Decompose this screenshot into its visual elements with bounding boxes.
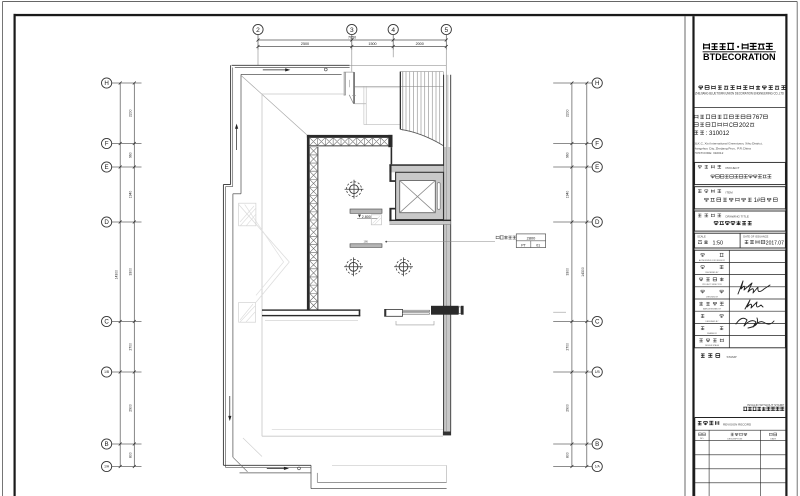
svg-text:: 310012: : 310012 <box>706 130 730 137</box>
company name CJK <box>699 85 786 89</box>
room hatched left wall <box>307 135 310 310</box>
stair treads <box>405 72 407 131</box>
sheet outer border <box>3 1 798 3</box>
svg-text:C: C <box>729 122 733 129</box>
svg-text:1/B: 1/B <box>104 370 110 374</box>
project box <box>695 162 786 184</box>
left wall hatch X cells <box>310 147 318 310</box>
svg-text:202: 202 <box>739 122 750 129</box>
bottom wall dark pier <box>431 306 459 315</box>
finish leader and tag <box>385 241 387 243</box>
svg-text:1/A: 1/A <box>104 465 110 469</box>
svg-text:REVISION RECORD: REVISION RECORD <box>723 422 752 426</box>
ceiling faint lines <box>261 94 263 436</box>
svg-text:2700: 2700 <box>129 343 133 351</box>
svg-text:2000: 2000 <box>416 42 424 46</box>
bottom wall left segment <box>262 309 360 310</box>
svg-text:2700: 2700 <box>565 343 569 351</box>
svg-text:960: 960 <box>565 152 569 158</box>
svg-text:REVIEWED BY: REVIEWED BY <box>705 272 719 274</box>
svg-text:800: 800 <box>565 452 569 458</box>
svg-text:14300: 14300 <box>114 270 118 280</box>
svg-text:2200: 2200 <box>565 109 569 117</box>
svg-text:SCALE: SCALE <box>697 234 706 238</box>
svg-text:1:50: 1:50 <box>713 241 724 247</box>
elevator bottom wall <box>389 220 450 222</box>
svg-text:2200: 2200 <box>129 109 133 117</box>
elevator lobby walls <box>391 147 393 164</box>
beam bar with elevation <box>350 209 382 213</box>
svg-text:F: F <box>105 141 109 148</box>
svg-text:DATE: DATE <box>770 437 776 440</box>
scale/date box <box>695 233 786 248</box>
ceiling light 2 <box>344 266 363 268</box>
roof vent rect 1 <box>239 203 256 226</box>
svg-text:B: B <box>595 441 599 448</box>
roof eave outline: left upper <box>230 65 232 184</box>
svg-text:3300: 3300 <box>565 268 569 276</box>
signature 3 <box>736 318 774 328</box>
svg-text:1#: 1# <box>754 198 761 204</box>
roof vent rect 2 <box>239 303 256 323</box>
svg-text:DRAWN BY: DRAWN BY <box>707 332 718 335</box>
svg-text:2900: 2900 <box>129 404 133 412</box>
svg-text:4: 4 <box>391 27 395 34</box>
svg-text:186: 186 <box>364 240 369 244</box>
svg-text:CHECKED BY: CHECKED BY <box>706 296 719 298</box>
top grid bubbles 2 3 4 5 <box>253 24 263 34</box>
svg-text:NO.: NO. <box>700 438 704 440</box>
stair walk curve <box>400 129 443 145</box>
ceiling light 3 <box>394 266 413 268</box>
svg-text:C: C <box>595 319 600 326</box>
dashed equipment box <box>371 215 381 225</box>
svg-text:5: 5 <box>444 27 448 34</box>
svg-text:767: 767 <box>752 114 763 121</box>
svg-text:7050: 7050 <box>348 35 356 39</box>
top dimension lines <box>258 39 446 41</box>
stair landing faint lines <box>355 85 444 87</box>
svg-text:MAIN DESIGNED BY: MAIN DESIGNED BY <box>703 308 722 311</box>
signature 2 <box>745 300 763 309</box>
sheet thick frame <box>14 14 788 16</box>
revision record table <box>695 417 786 419</box>
svg-text:ZHEJIANG BLUETOWN UNION DECORA: ZHEJIANG BLUETOWN UNION DECORATION ENGIN… <box>695 91 785 95</box>
ceiling light 1 <box>345 188 364 190</box>
svg-text:F: F <box>595 141 599 148</box>
svg-text:2: 2 <box>256 27 260 34</box>
svg-text:AUTHORIZED FOR ISSUE BY: AUTHORIZED FOR ISSUE BY <box>699 259 726 262</box>
stairwell right wall band <box>446 75 449 147</box>
roof eave outline: top fascia <box>232 64 350 66</box>
curtain bar <box>350 244 382 248</box>
bottom step to terrace <box>310 465 312 488</box>
svg-text:2800: 2800 <box>527 236 536 241</box>
signature 1 <box>738 281 770 294</box>
svg-text:D: D <box>104 219 109 226</box>
logo CJK 蓝城集团·装饰公司 <box>737 46 739 48</box>
svg-text:960: 960 <box>129 152 133 158</box>
svg-text:14300: 14300 <box>581 267 585 277</box>
svg-text:2500: 2500 <box>301 42 309 46</box>
title block left edge <box>692 16 694 496</box>
svg-text:E: E <box>595 164 599 171</box>
svg-text:DESCRIPTION: DESCRIPTION <box>727 438 742 440</box>
svg-text:1940: 1940 <box>129 191 133 199</box>
svg-text:1/A: 1/A <box>595 465 601 469</box>
top wall hatch X cells <box>310 138 389 146</box>
svg-text:H: H <box>104 80 108 87</box>
right grid bubbles and dims <box>553 82 592 84</box>
roof eave outline: bottom <box>223 464 311 466</box>
room hatched top wall <box>307 135 393 138</box>
top wall piece near grid3 <box>344 72 346 95</box>
svg-text:DRAWING TITLE: DRAWING TITLE <box>726 215 749 219</box>
left grid bubbles and dims <box>112 82 142 84</box>
svg-text:BTDECORATION: BTDECORATION <box>703 52 776 62</box>
stamp label <box>701 354 720 358</box>
svg-text:B: B <box>105 441 109 448</box>
svg-text:2900: 2900 <box>565 404 569 412</box>
svg-text:INVALID WITHOUT STAMP: INVALID WITHOUT STAMP <box>747 403 784 407</box>
svg-text:DATE OF ISSUANCE: DATE OF ISSUANCE <box>743 234 768 238</box>
slope arrows and vents on eave <box>263 69 287 71</box>
svg-text:C: C <box>104 319 109 326</box>
svg-text:E: E <box>105 164 109 171</box>
svg-text:2017.07: 2017.07 <box>766 241 784 247</box>
svg-text:D: D <box>595 219 600 226</box>
roof eave outline: left lower <box>222 185 224 466</box>
svg-text:DESIGN STAGE: DESIGN STAGE <box>705 344 720 347</box>
door dashed bracket <box>396 321 434 325</box>
svg-text:3: 3 <box>350 27 354 34</box>
bottom wall right segment with sliding door <box>385 309 403 316</box>
grid line stubs down <box>257 50 259 66</box>
signature table <box>695 250 786 348</box>
svg-text:DESIGNED BY: DESIGNED BY <box>706 321 720 323</box>
svg-text:ITEM: ITEM <box>726 190 734 194</box>
svg-text:1500: 1500 <box>368 42 376 46</box>
svg-text:01: 01 <box>536 243 540 247</box>
svg-text:800: 800 <box>129 452 133 458</box>
svg-text:PROJECT DIRECTOR: PROJECT DIRECTOR <box>702 284 722 286</box>
svg-text:PT: PT <box>521 243 526 247</box>
hip line top-left <box>241 76 306 135</box>
svg-text:POSTCODE: 310012: POSTCODE: 310012 <box>694 151 724 155</box>
svg-text:3300: 3300 <box>129 268 133 276</box>
item box <box>695 187 786 209</box>
drawing/title divider <box>684 16 686 496</box>
elevator door slot <box>437 183 440 210</box>
svg-text:1/B: 1/B <box>595 370 601 374</box>
left roof chevron faint <box>239 205 290 263</box>
wall stub to right grid <box>553 311 566 313</box>
svg-text:Hangzhou City, Zhejiang Prov.,: Hangzhou City, Zhejiang Prov., P.R.China <box>694 146 751 150</box>
elevator shaft <box>396 172 444 219</box>
drawing title box <box>695 211 786 231</box>
svg-text:H: H <box>595 80 599 87</box>
svg-text:BLK.C, Xixi International Gree: BLK.C, Xixi International Greentown, Xih… <box>694 141 763 145</box>
eave step left <box>223 184 230 186</box>
svg-text:STAMP: STAMP <box>727 355 737 359</box>
grid5 line <box>445 50 447 432</box>
svg-text:1940: 1940 <box>565 191 569 199</box>
staircase <box>400 71 443 73</box>
svg-text:PROJECT: PROJECT <box>726 166 740 170</box>
